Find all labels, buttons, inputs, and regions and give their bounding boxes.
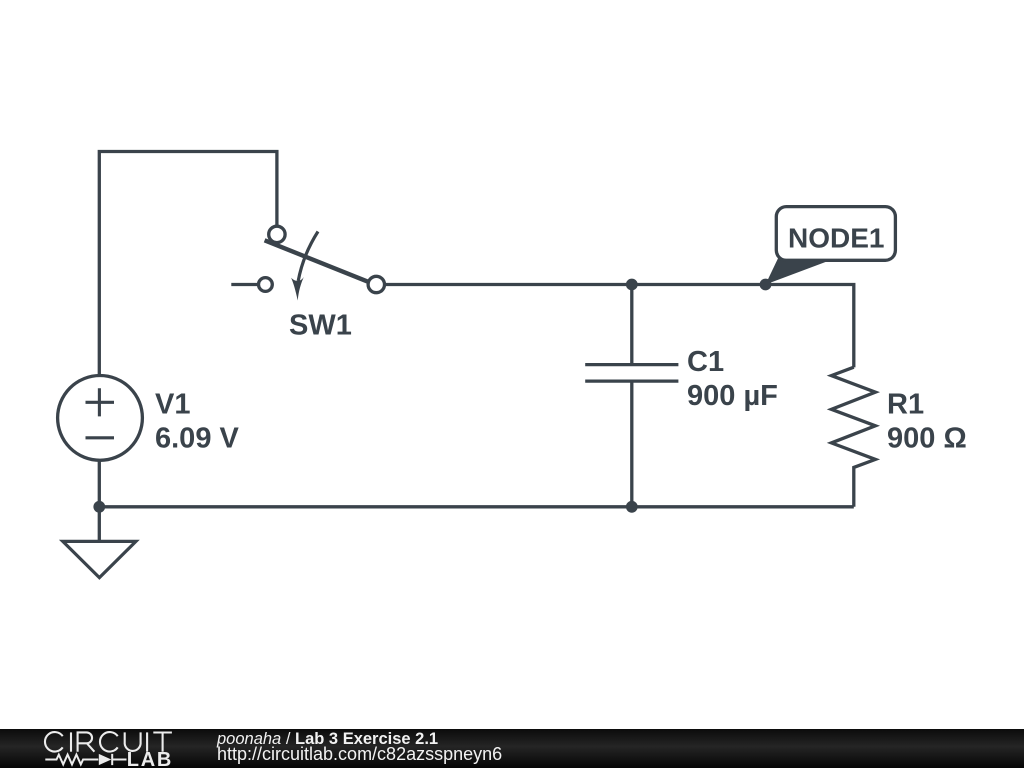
junction dot V1/ground/bottom rail	[93, 501, 105, 513]
junction dot capacitor top	[626, 279, 638, 291]
svg-text:900 µF: 900 µF	[687, 380, 778, 412]
svg-text:900 Ω: 900 Ω	[887, 422, 967, 454]
wire SW1 right throw to NODE1 and R1 top	[386, 285, 854, 368]
node NODE1 callout pointer	[766, 256, 826, 284]
node NODE1 junction dot	[760, 279, 772, 291]
label R1 value 900 Ohm	[887, 388, 967, 454]
CircuitLab logo	[0, 729, 180, 768]
SW1 left throw contact circle	[259, 278, 273, 292]
junction dot capacitor bottom	[626, 501, 638, 513]
footer bar	[0, 729, 1024, 768]
voltage source V1	[58, 376, 143, 461]
wire V1 plus terminal up and over to SW1 pivot	[99, 152, 277, 376]
wire bottom rail	[99, 505, 854, 508]
SW1 right throw contact circle	[368, 276, 384, 292]
svg-text:SW1: SW1	[289, 310, 352, 342]
SW1 lever arm	[265, 240, 368, 281]
svg-text:NODE1: NODE1	[788, 223, 884, 254]
wire stub left throw of SW1	[231, 283, 258, 286]
svg-text:C1: C1	[687, 346, 724, 378]
svg-text:6.09 V: 6.09 V	[155, 422, 239, 454]
ground symbol	[63, 541, 136, 577]
SW1 actuation arrow arc	[298, 232, 318, 282]
wire V1 minus terminal down to ground	[98, 460, 101, 541]
label C1 value 900 uF	[687, 346, 778, 412]
svg-text:LAB: LAB	[127, 749, 173, 768]
SW1 pivot contact circle	[269, 226, 285, 242]
capacitor C1	[585, 285, 678, 507]
node NODE1 callout box	[776, 207, 895, 261]
label V1 value 6.09 V	[155, 388, 239, 454]
switch SW1	[231, 226, 384, 300]
svg-text:V1: V1	[155, 388, 190, 420]
resistor R1 zigzag	[831, 367, 875, 507]
svg-text:R1: R1	[887, 388, 924, 420]
